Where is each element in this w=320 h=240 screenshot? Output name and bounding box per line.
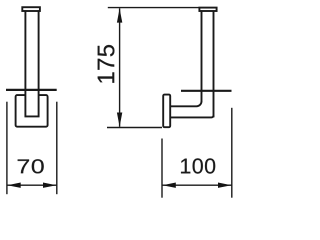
front view: rod bbox=[25, 9, 38, 116]
side view: arm bbox=[170, 101, 213, 117]
side view: wall plate bbox=[163, 95, 170, 128]
dim 100: right extension line bbox=[231, 108, 233, 198]
dim 100: label bbox=[181, 158, 215, 173]
dim 100: left extension line bbox=[161, 139, 163, 198]
dim 175: label bbox=[98, 45, 115, 83]
dim 100: right arrowhead bbox=[218, 183, 231, 188]
dim 70: dimension line bbox=[7, 184, 57, 186]
dim 100: dimension line bbox=[162, 184, 232, 186]
dim 175: bottom arrowhead bbox=[117, 113, 122, 127]
dim 100: left arrowhead bbox=[162, 183, 175, 188]
front view: cross bar (70 wide) bbox=[6, 89, 57, 91]
side view: rod bbox=[202, 11, 214, 117]
dim 175: top arrowhead bbox=[117, 8, 122, 22]
dim 70: right arrowhead bbox=[43, 183, 56, 188]
dim 70: left arrowhead bbox=[7, 183, 20, 188]
dim 70: right extension line bbox=[56, 102, 58, 195]
dim 175: bottom extension line bbox=[107, 127, 162, 129]
side view: top extension line bbox=[108, 7, 200, 9]
front view: rod cap bbox=[22, 7, 40, 11]
dim 70: left extension line bbox=[6, 102, 8, 195]
side view: roll bar bbox=[181, 90, 232, 92]
side view: rod cap bbox=[199, 8, 216, 11]
dim 175: dimension line bbox=[119, 8, 121, 127]
dim 70: label bbox=[18, 159, 44, 173]
front view: wall plate (square) bbox=[16, 95, 48, 127]
